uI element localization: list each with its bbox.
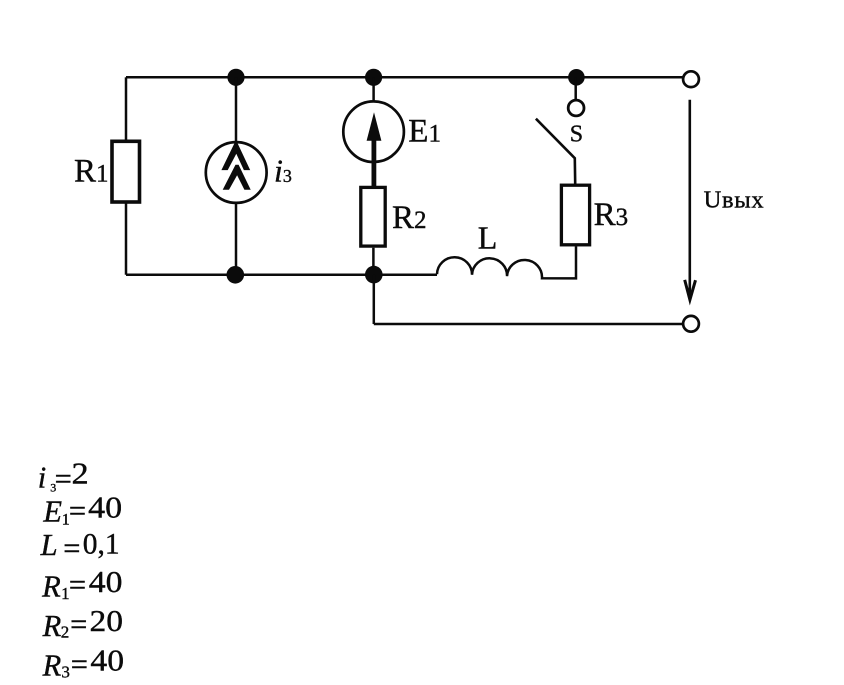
wire top bus [126,76,683,79]
Uvyh arrow [685,100,696,300]
wire i3 bottom lead [235,204,238,275]
svg-text:E1: E1 [408,114,441,150]
output terminal top [683,71,699,87]
svg-text:E1=40: E1=40 [42,491,122,529]
switch S blade [536,119,575,184]
node junction bottom R2 [365,266,383,284]
resistor R2 [361,187,385,246]
node junction top i3 [227,69,244,86]
node junction top E1 [365,69,382,86]
node junction top switch [568,69,585,86]
wire E1 top lead [372,77,375,101]
resistor R3 [561,185,589,245]
wire drop to lower output bus [373,275,376,324]
svg-text:i3=2: i3=2 [38,456,89,496]
voltage source E1 [343,101,404,162]
wire switch top lead [574,77,577,99]
wire bottom bus left [126,274,437,277]
switch S open terminal [568,100,584,116]
node junction bottom i3 [227,266,245,284]
E1 emf arrow [367,112,382,186]
svg-text:R2=20: R2=20 [42,604,123,643]
svg-text:L=0,1: L=0,1 [40,528,120,566]
wire R2 bottom lead [372,248,375,275]
svg-text:S: S [570,122,583,148]
svg-text:Uвых: Uвых [704,187,765,214]
wire R1 bottom lead [125,204,128,275]
svg-text:R1: R1 [74,153,109,189]
wire i3 top lead [235,77,238,141]
wire bottom output bus [374,323,683,326]
output terminal bottom [683,316,699,332]
svg-text:R3=40: R3=40 [42,644,124,683]
svg-text:R2: R2 [392,200,427,236]
current source i3 [206,142,267,203]
svg-text:i3: i3 [274,152,292,188]
svg-text:R3: R3 [594,197,629,233]
svg-text:L: L [478,220,498,256]
svg-text:R1=40: R1=40 [41,565,122,603]
resistor R1 [112,141,140,202]
wire left drop to R1 [125,77,128,140]
inductor L [437,246,576,278]
